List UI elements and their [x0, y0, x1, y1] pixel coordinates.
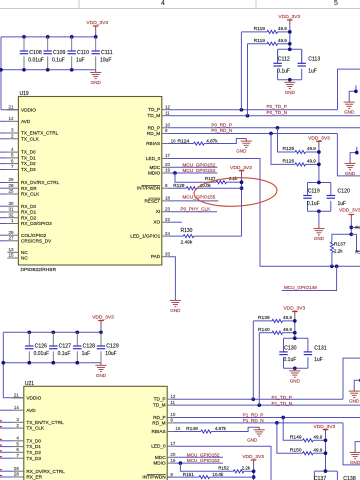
resistor R137 2.2k [331, 253, 333, 267]
svg-text:23: 23 [165, 206, 171, 211]
svg-text:31: 31 [8, 207, 14, 212]
wire U21 cap bank bottom rail [3, 362, 101, 364]
resistor R130 2.49k on LED_1/GPIO1 [167, 235, 183, 237]
junction C119/C120 bottom [317, 209, 321, 213]
resistor R140 49.9 [272, 331, 283, 334]
ESD clamp structure near P1_TD [354, 375, 360, 389]
capacitor C127 0.1uF [49, 345, 57, 347]
resistor R124 4.87k on RBIAS [167, 143, 193, 145]
svg-text:LED_0: LED_0 [146, 156, 161, 161]
wire R119 left [248, 43, 268, 45]
svg-text:22: 22 [165, 217, 171, 222]
svg-text:28: 28 [8, 183, 14, 188]
wire TD_P / P0_TD_P [167, 109, 337, 111]
svg-text:1uF: 1uF [82, 351, 91, 357]
wire left rail down to VDDIO pin 21 [0, 37, 2, 110]
svg-text:RD_M: RD_M [147, 131, 160, 136]
pin 5 TX_D1 U19 [7, 157, 18, 159]
svg-text:MCU_GPIO148: MCU_GPIO148 [284, 285, 317, 290]
svg-text:R119: R119 [254, 38, 266, 44]
ground of ESD structure [354, 450, 356, 453]
svg-text:C108: C108 [29, 50, 42, 56]
svg-text:24: 24 [165, 231, 171, 236]
wire R118 riser [240, 32, 242, 110]
junction top rail at C127 [51, 330, 55, 334]
wire VDD column R137 [350, 220, 352, 235]
wire VDD column R139/R140 [294, 317, 296, 339]
svg-text:PAD: PAD [151, 254, 161, 259]
wire MCU_GPIO148 [282, 266, 337, 290]
junction C112/C113 top [288, 47, 292, 51]
svg-text:P0_TD_P: P0_TD_P [267, 104, 287, 109]
junction R152/VDD [252, 469, 256, 473]
capacitor C129 10uF [97, 345, 105, 347]
wire RD_P / P0_RD_P to right edge [167, 127, 360, 129]
svg-text:C119: C119 [308, 189, 320, 195]
junction MDIO branch U21 [179, 461, 183, 465]
svg-text:TD_M: TD_M [153, 403, 166, 408]
power VDD_3V3 above C129 [98, 320, 104, 322]
pin 20 MDC U19 [162, 166, 168, 168]
wire RD_M / P1_RD_N [173, 422, 343, 424]
pin 15 NC U19 [7, 257, 18, 259]
resistor R152 2.2k [233, 470, 244, 473]
svg-text:TX_D0: TX_D0 [21, 150, 36, 155]
svg-text:25: 25 [8, 189, 14, 194]
pin 6 TX_D2 U21 [13, 451, 24, 453]
svg-text:RX_D1: RX_D1 [21, 210, 37, 215]
wire R139 left [253, 320, 272, 322]
svg-text:VDDIO: VDDIO [26, 395, 41, 400]
svg-text:49.9: 49.9 [283, 315, 292, 320]
svg-text:C129: C129 [106, 343, 119, 349]
svg-text:RD_P: RD_P [148, 125, 161, 130]
svg-text:VDD_3V3: VDD_3V3 [339, 207, 360, 213]
pin 6 TX_D2 U19 [7, 163, 18, 165]
wire C130/C131 top [284, 337, 308, 339]
svg-text:C130: C130 [284, 345, 297, 351]
svg-text:U19: U19 [20, 91, 29, 97]
junction bottom rail at C127 [51, 361, 55, 365]
resistor R118 49.9 [267, 30, 278, 33]
wire left rail down to U21 VDDIO [2, 332, 4, 398]
pin 7 TX_D3 U19 [7, 169, 18, 171]
junction bottom rail at C109 [46, 68, 50, 72]
svg-text:TD_M: TD_M [147, 113, 160, 118]
capacitor C130 0.1uF [279, 351, 287, 353]
junction R118/VDD [288, 30, 292, 34]
svg-text:MCU_GPIO152: MCU_GPIO152 [183, 162, 216, 167]
junction bottom rail left [0, 68, 3, 72]
capacitor C120 1uF [327, 195, 335, 197]
ground of ESD structure [349, 161, 351, 164]
svg-text:49.9: 49.9 [307, 159, 316, 164]
ESD clamp structure A near P0_TD [349, 86, 356, 100]
svg-text:TD_P: TD_P [148, 107, 160, 112]
svg-text:C110: C110 [77, 50, 89, 56]
wire MDIO / MCU_GPIO153 U21 [173, 462, 223, 464]
wire R149 right [313, 439, 325, 441]
resistor R149 49.9 [303, 439, 314, 442]
pin 18 RESET U19 [162, 200, 168, 202]
svg-text:1uF: 1uF [308, 68, 317, 74]
svg-text:R137: R137 [334, 242, 346, 248]
power VDD_3V3 right for R137 [349, 214, 355, 216]
svg-text:LED_0: LED_0 [151, 444, 166, 449]
svg-text:18: 18 [165, 196, 171, 201]
junction R150/VDD [324, 451, 328, 455]
resistor R126 49.9 [295, 163, 306, 166]
svg-text:R149: R149 [290, 434, 302, 440]
svg-text:MDC: MDC [155, 455, 166, 460]
svg-text:R151: R151 [183, 472, 195, 477]
wire R127 right to VDD [227, 181, 242, 183]
svg-text:49.9: 49.9 [283, 327, 292, 332]
ground below C111 [95, 70, 97, 73]
junction TD_M at R140 riser [257, 403, 261, 407]
svg-text:MCU_GPIO153: MCU_GPIO153 [183, 168, 216, 173]
svg-text:P0_RD_N: P0_RD_N [211, 128, 232, 133]
capacitor C119 0.1uF [303, 195, 311, 197]
svg-text:TX_D2: TX_D2 [26, 450, 41, 455]
svg-text:P0_PHY_CLK: P0_PHY_CLK [181, 207, 212, 212]
svg-text:INT/PWDN: INT/PWDN [137, 186, 160, 191]
wire VDD column R149/R150 [325, 435, 327, 471]
pin 14 AVD U21 [13, 409, 24, 411]
capacitor C110 1uF [68, 50, 76, 52]
capacitor C111 10uF [92, 50, 100, 52]
junction C137/C138 top [324, 469, 328, 473]
capacitor C109 0.1uF [44, 50, 52, 52]
resistor R125 49.9 [295, 150, 306, 153]
pin 2 TX_CLK U19 [7, 138, 18, 140]
pin 4 TX_D0 U19 [7, 151, 18, 153]
ground for PAD [174, 298, 176, 301]
wire P1_TD_P riser to right edge [343, 358, 360, 399]
svg-text:C111: C111 [101, 50, 113, 56]
svg-text:C128: C128 [83, 343, 96, 349]
svg-text:TX_D2: TX_D2 [21, 161, 36, 166]
pin 4 TX_D0 U21 [13, 440, 24, 442]
resistor R151 zigzag [199, 476, 210, 479]
wire RD_N to R126 [271, 134, 295, 165]
ground for R148 [258, 427, 260, 430]
pin 12 TD_P U21 [167, 398, 173, 400]
junction top rail at C108 [22, 35, 26, 39]
svg-text:C109: C109 [53, 50, 66, 56]
svg-text:P1_TD_N: P1_TD_N [272, 401, 293, 406]
svg-text:XO: XO [153, 220, 160, 225]
wire R140 left [259, 332, 272, 334]
svg-text:CRS/CRS_DV: CRS/CRS_DV [21, 238, 52, 243]
svg-text:DP83822IRHBR: DP83822IRHBR [21, 267, 57, 273]
svg-text:TX_D3: TX_D3 [26, 456, 41, 461]
pin 1 RX_D3/GPIO3 U19 [7, 223, 18, 225]
resistor R148 4.87k on RBIAS U21 [173, 431, 201, 433]
svg-text:R1: R1 [355, 250, 360, 256]
resistor R127 2.2k [216, 181, 227, 184]
svg-text:COL/GPIO2: COL/GPIO2 [21, 233, 47, 238]
sheet border top edge [0, 8, 360, 10]
svg-text:27: 27 [8, 236, 14, 241]
svg-text:26: 26 [8, 177, 14, 182]
junction bottom rail at C126 [27, 361, 31, 365]
svg-text:LED_1/GPIO1: LED_1/GPIO1 [130, 234, 160, 239]
svg-text:14: 14 [14, 405, 20, 410]
svg-text:0.1uF: 0.1uF [307, 201, 320, 207]
svg-text:AVD: AVD [21, 119, 31, 124]
resistor R150 49.9 [303, 452, 314, 455]
IC U21 DP83822IRHBR body [24, 386, 167, 480]
svg-text:AVD: AVD [26, 408, 36, 413]
svg-text:21: 21 [8, 104, 14, 109]
svg-text:GND: GND [96, 373, 107, 378]
wire MDIO to R127 [175, 173, 216, 182]
wire MDC / MCU_GPIO152 [167, 166, 217, 168]
ESD clamp structure B near P0_RD [350, 147, 357, 161]
junction R119/VDD [288, 42, 292, 46]
wire R151 right to VDD column [210, 476, 254, 478]
junction R149/VDD [324, 438, 328, 442]
svg-text:26: 26 [14, 466, 20, 471]
wire C137/C138 top [314, 470, 337, 472]
svg-text:29: 29 [8, 230, 14, 235]
power VDD_3V3 above R125/R126 [316, 140, 322, 142]
svg-text:TX_D3: TX_D3 [21, 167, 36, 172]
junction top rail at C128 [75, 330, 79, 334]
svg-text:RD_M: RD_M [152, 420, 165, 425]
svg-text:32: 32 [8, 212, 14, 217]
pin 21 VDDIO U21 [13, 397, 24, 399]
svg-text:13: 13 [8, 247, 14, 252]
svg-text:VDD_3V3: VDD_3V3 [230, 165, 252, 171]
pin 23 XI U19 [162, 211, 168, 213]
svg-text:20: 20 [170, 452, 176, 457]
svg-text:10uF: 10uF [100, 58, 111, 64]
svg-text:RESET: RESET [145, 198, 161, 203]
svg-text:GND: GND [344, 110, 355, 115]
pin 2 TX_CLK U21 [13, 427, 24, 429]
cut net label fragments left edge [0, 420, 2, 422]
pin 24 LED_1/GPIO1 U19 [162, 235, 168, 237]
svg-text:R148: R148 [186, 426, 198, 432]
pin 28 RX_ER U19 [7, 187, 18, 189]
svg-text:5: 5 [334, 0, 338, 7]
svg-text:MCU_GPIO152: MCU_GPIO152 [187, 452, 220, 457]
wire TD_P / P1_TD_P [173, 398, 343, 400]
capacitor C112 0.1uF [273, 62, 281, 64]
pin 11 TD_M U19 [162, 115, 168, 117]
junction R128/VDD [240, 186, 244, 190]
junction TD_M at R119 riser [246, 114, 250, 118]
wire XI / P0_PHY_CLK [167, 211, 217, 213]
svg-text:VDD_3V3: VDD_3V3 [283, 306, 305, 312]
svg-text:C131: C131 [314, 345, 327, 351]
pin 11 TD_M U21 [167, 404, 173, 406]
pin 30 RX_D0 U19 [7, 205, 18, 207]
power VDD_3V3 above C111 [93, 25, 99, 27]
junction TD_P at R139 riser [251, 397, 255, 401]
resistor R151 10.0k on INT/PWDN U21 [167, 476, 199, 478]
svg-text:12: 12 [170, 394, 176, 399]
junction MDIO branch [173, 171, 177, 175]
svg-text:GND: GND [345, 171, 356, 176]
svg-text:RD_P: RD_P [153, 415, 166, 420]
svg-text:R150: R150 [290, 447, 302, 453]
svg-text:16: 16 [171, 139, 177, 144]
wire C119/C120 to ground [318, 211, 320, 226]
resistor R128 10.0k on INT/PWDN [167, 187, 186, 189]
svg-text:C112: C112 [278, 57, 290, 63]
pin 26 RX_DV/RX_CTRL U19 [7, 182, 18, 184]
wire R126 right [306, 163, 319, 165]
wire RESET / MCU_GPIO155 [167, 200, 218, 202]
svg-text:VDDIO: VDDIO [21, 107, 36, 112]
junction C119/C120 top [317, 181, 321, 185]
wire VDD column through R118/R119 [289, 25, 291, 49]
svg-text:0.1uF: 0.1uF [52, 58, 65, 64]
wire XO stub [167, 221, 182, 223]
junction R140/VDD [293, 331, 297, 335]
wire VDD column R152/R151 [253, 465, 255, 480]
resistor R137 zigzag [330, 242, 333, 253]
pin 13 NC U19 [7, 251, 18, 253]
svg-text:28: 28 [14, 472, 20, 477]
svg-text:NC: NC [21, 256, 28, 261]
svg-text:TX_D1: TX_D1 [26, 444, 41, 449]
svg-text:RX_ER: RX_ER [21, 186, 37, 191]
wire PAD to ground [167, 257, 175, 298]
svg-text:R130: R130 [181, 228, 193, 234]
svg-text:P1_RD_N: P1_RD_N [243, 418, 264, 423]
svg-text:GND: GND [247, 437, 258, 442]
svg-text:17: 17 [165, 153, 171, 158]
svg-text:P1_TD_P: P1_TD_P [272, 395, 292, 400]
svg-text:14: 14 [8, 116, 14, 121]
svg-text:R128: R128 [173, 183, 185, 188]
svg-text:MDIO: MDIO [148, 171, 161, 176]
wire VDD stem to U21 top rail [100, 326, 102, 333]
svg-text:RX_ER: RX_ER [26, 475, 42, 480]
junction bottom rail at C108 [22, 68, 26, 72]
pin 29 COL/GPIO2 U19 [7, 234, 18, 236]
svg-text:2.2k: 2.2k [242, 466, 251, 471]
svg-text:P1_RD_P: P1_RD_P [243, 413, 264, 418]
svg-text:TX_D1: TX_D1 [21, 156, 36, 161]
svg-text:MDIO: MDIO [153, 461, 166, 466]
resistor R124 zigzag [194, 142, 205, 145]
svg-text:C126: C126 [35, 343, 48, 349]
junction top rail at C110 [70, 35, 74, 39]
wire cap bank top rail [1, 36, 96, 38]
svg-text:RBIAS: RBIAS [152, 429, 166, 434]
pin 33 PAD U19 [162, 256, 168, 258]
svg-text:20: 20 [165, 162, 171, 167]
wire R140 right [283, 332, 295, 334]
pin 5 TX_D1 U21 [13, 446, 24, 448]
junction R126/VDD [317, 163, 321, 167]
svg-text:R118: R118 [254, 26, 266, 32]
ESD clamp structure near P1_RD [355, 436, 360, 450]
wire TD_M / P1_TD_N to right edge [173, 404, 360, 406]
pin 17 LED_0 U21 [167, 445, 173, 447]
pin 9 RD_M U21 [167, 422, 173, 424]
power VDD_3V3 above R152 [251, 459, 257, 461]
svg-text:0.1uF: 0.1uF [277, 68, 290, 74]
pin 3 TX_EN/TX_CTRL U19 [7, 132, 18, 134]
junction C112/C113 bottom [288, 78, 292, 82]
pin 10 RD_P U21 [167, 417, 173, 419]
wire R125 right [306, 151, 319, 153]
junction R139/VDD [293, 319, 297, 323]
wire R139 riser [252, 321, 254, 399]
wire VDD column through R125/R126 [318, 147, 320, 183]
pin 27 CRS/CRS_DV U19 [7, 240, 18, 242]
ground below C112/C113 [289, 80, 291, 83]
wire R130 right to VDD column [194, 235, 242, 237]
wire R119 right [278, 43, 290, 45]
svg-text:10: 10 [165, 123, 171, 128]
pin 17 LED_0 U19 [162, 158, 168, 160]
svg-text:49.9: 49.9 [278, 26, 287, 31]
svg-text:49.9: 49.9 [313, 447, 322, 452]
pin 28 RX_ER U21 [13, 476, 24, 478]
pin 19 MDIO U21 [167, 462, 173, 464]
ground of ESD structure [353, 389, 355, 392]
wire P0_TD_P riser to right edge [338, 69, 360, 110]
svg-text:GND: GND [349, 399, 360, 404]
svg-text:P0_TD_N: P0_TD_N [267, 110, 288, 115]
svg-text:VDD_3V3: VDD_3V3 [314, 424, 336, 430]
svg-text:0.1uF: 0.1uF [284, 357, 297, 363]
svg-text:33: 33 [165, 251, 171, 256]
junction top rail at C126 [27, 330, 31, 334]
svg-text:GND: GND [91, 80, 102, 85]
svg-text:C137: C137 [314, 476, 327, 480]
svg-text:21: 21 [14, 393, 20, 398]
svg-text:11: 11 [165, 110, 170, 115]
junction RD_N at R150 riser [275, 421, 279, 425]
junction R127/VDD [240, 180, 244, 184]
wire R128 right to VDD column [197, 187, 242, 189]
wire RD_N to R150 [277, 423, 303, 453]
wire MDIO to R152 [180, 463, 233, 471]
svg-text:0.01uF: 0.01uF [34, 351, 50, 357]
svg-text:1uF: 1uF [76, 58, 85, 64]
pin 32 RX_D2 U19 [7, 217, 18, 219]
svg-text:R139: R139 [258, 315, 270, 321]
svg-text:C120: C120 [338, 189, 351, 195]
wire P1_RD_N drop to right edge [343, 423, 360, 465]
wire C130/C131 bottom [284, 367, 308, 369]
ground of ESD structure [348, 100, 350, 103]
wire C112/C113 top [278, 48, 302, 50]
resistor R128 zigzag [186, 187, 197, 190]
svg-text:16: 16 [175, 426, 181, 431]
svg-text:49.9: 49.9 [307, 146, 316, 151]
wire R124 to ground [204, 139, 246, 144]
power VDD_3V3 above R149/R150 [323, 429, 329, 431]
svg-text:TX_EN/TX_CTRL: TX_EN/TX_CTRL [21, 131, 59, 136]
pin 26 RX_DV/RX_CTRL U21 [13, 470, 24, 472]
svg-text:TX_CLK: TX_CLK [26, 426, 45, 431]
junction TD_P at R118 riser [240, 108, 244, 112]
pin 8 INT/PWDN U19 [162, 187, 168, 189]
pin 8 INT/PWDN U21 [167, 476, 173, 478]
wire RD_P / P1_RD_P to right edge [173, 417, 360, 419]
resistor R139 49.9 [272, 319, 283, 322]
pin 25 RX_CLK U19 [7, 193, 18, 195]
